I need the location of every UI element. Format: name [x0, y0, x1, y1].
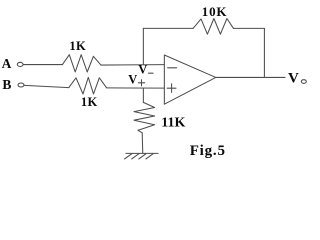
svg-text:11K: 11K	[161, 116, 185, 131]
op-amp non-inverting input marker	[167, 84, 176, 93]
svg-text:10K: 10K	[202, 4, 228, 19]
svg-text:1K: 1K	[81, 95, 98, 109]
feedback wire up from V- node	[142, 28, 144, 64]
op-amp inverting input marker	[168, 67, 177, 69]
svg-text:1K: 1K	[69, 39, 86, 53]
output wire	[216, 76, 285, 78]
resistor R3 11K	[134, 102, 155, 130]
wire R1 to op-amp inverting input	[101, 64, 164, 66]
terminal A	[17, 62, 23, 66]
resistor R1 1K	[62, 55, 101, 72]
wire R2 to op-amp non-inverting input	[107, 87, 165, 89]
feedback wire down to output	[263, 28, 265, 77]
svg-text:V: V	[288, 71, 299, 87]
svg-text:Fig.5: Fig.5	[190, 143, 226, 159]
svg-text:V: V	[138, 63, 147, 77]
resistor Rf 10K	[193, 19, 233, 35]
feedback wire top right segment	[233, 27, 264, 29]
wire R3 to ground	[138, 130, 143, 153]
ground	[125, 153, 159, 159]
wire B to R2	[24, 85, 69, 87]
terminal B	[18, 83, 24, 87]
svg-text:A: A	[2, 56, 12, 71]
op-amp U1 body	[164, 55, 215, 104]
resistor R2 1K	[69, 77, 107, 94]
wire A to R1	[23, 64, 62, 66]
svg-text:B: B	[2, 77, 11, 92]
svg-text:V: V	[128, 72, 137, 86]
feedback wire top left segment	[143, 27, 193, 29]
wire V+ node down to R3	[142, 88, 144, 102]
